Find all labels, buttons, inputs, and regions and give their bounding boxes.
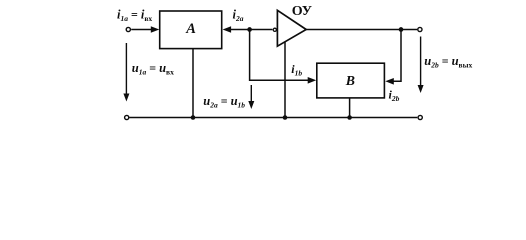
junction bottom rail x=193 — [191, 115, 196, 120]
voltage arrow u2b (down) — [420, 37, 422, 88]
voltage arrow u2a (down) — [250, 85, 252, 104]
wire: op-amp lower terminal down to bottom rail — [284, 42, 286, 118]
wire: junction down and left to B right edge with arrow i2b — [393, 30, 401, 82]
wire: A bottom to bottom rail — [192, 49, 194, 118]
voltage arrow u1a (down) — [125, 43, 127, 96]
terminal bottom-right — [418, 115, 422, 119]
junction on top wire at x=249.6 — [247, 27, 252, 32]
svg-text:ОУ: ОУ — [292, 4, 312, 19]
bottom rail wire — [130, 117, 418, 119]
input terminal top-left — [126, 27, 130, 31]
junction bottom rail x=285 — [283, 115, 288, 120]
op-amp U1 triangle — [277, 10, 306, 46]
junction bottom rail x=349.6 — [347, 115, 352, 120]
terminal bottom-left — [125, 115, 129, 119]
wire: B bottom to bottom rail — [349, 98, 351, 118]
wire: input to A with current arrow i1a — [131, 29, 152, 31]
wire: junction down and right to B input with arrow i1b — [250, 30, 309, 81]
junction on output wire at x=401 — [399, 27, 404, 32]
svg-text:A: A — [185, 21, 196, 37]
op-amp U1 (ОУ) input circle — [273, 28, 276, 31]
output terminal top-right — [418, 27, 422, 31]
wire: op-amp input to A right edge with current arrow i2a — [223, 26, 232, 33]
svg-text:B: B — [345, 73, 355, 88]
block A — [160, 11, 222, 49]
wire: op-amp output to right — [306, 29, 417, 31]
block B — [317, 63, 385, 98]
